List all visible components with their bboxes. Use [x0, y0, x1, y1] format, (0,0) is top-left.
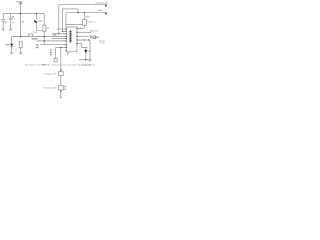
svg-text:Schematic of the AVR PAL video: Schematic of the AVR PAL video generator… [25, 64, 95, 67]
svg-text:Audio: Audio [98, 9, 103, 12]
svg-text:Audio amp: Audio amp [90, 30, 99, 33]
svg-text:Volume pot 10k: Volume pot 10k [44, 87, 57, 90]
svg-text:Tuning pot 1 M: Tuning pot 1 M [43, 72, 56, 75]
svg-text:8 ohm: 8 ohm [100, 43, 105, 45]
svg-text:Composite video: Composite video [95, 2, 108, 5]
svg-text:100k 5%: 100k 5% [88, 22, 96, 24]
